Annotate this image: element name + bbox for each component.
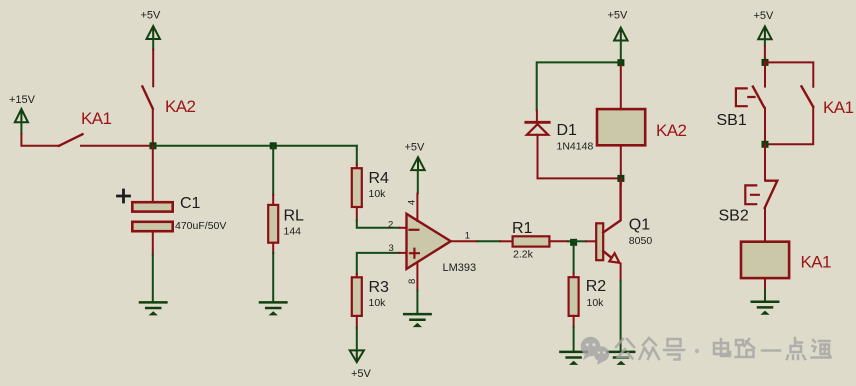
contact KA1 blade xyxy=(802,86,814,106)
svg-text:144: 144 xyxy=(284,226,302,238)
resistor R4 body xyxy=(352,168,362,207)
watermark text 公众号·电路一点通 (drawn) xyxy=(616,338,831,360)
button SB1 blade xyxy=(753,87,764,107)
relay coil KA1 pin bottom xyxy=(764,278,766,290)
wire KA1 coil to ground xyxy=(764,290,766,301)
op-amp pin 4 stub xyxy=(416,194,418,222)
diode D1 pin top xyxy=(536,110,538,121)
svg-text:RL: RL xyxy=(284,208,305,225)
button SB2 plunger xyxy=(745,185,759,204)
capacitor C1 plate 1 xyxy=(132,202,172,211)
node junction right top xyxy=(762,59,769,66)
svg-text:8: 8 xyxy=(407,279,418,284)
svg-text:KA1: KA1 xyxy=(801,252,831,271)
transistor Q1 emitter arrow xyxy=(609,253,619,263)
switch KA1 blade xyxy=(59,134,83,146)
op-amp pin 8 stub xyxy=(416,263,418,291)
capacitor C1 plus sign xyxy=(118,190,130,202)
wire SB2 to KA1 coil xyxy=(764,208,766,242)
svg-text:SB1: SB1 xyxy=(717,112,747,129)
wire +5V stub (right) xyxy=(764,39,766,46)
svg-text:R4: R4 xyxy=(369,170,390,187)
button SB1 plunger xyxy=(736,88,755,106)
svg-text:+5V: +5V xyxy=(754,10,775,22)
transistor Q1 emitter xyxy=(603,251,611,258)
relay coil KA2 body xyxy=(597,109,645,145)
wire junction to R2 xyxy=(573,245,575,274)
svg-text:10k: 10k xyxy=(369,297,387,309)
resistor R2 body xyxy=(569,277,579,316)
wire junction to Q1 base xyxy=(574,240,586,242)
svg-text:10k: 10k xyxy=(369,188,387,200)
ground op-amp xyxy=(404,314,430,326)
wire junction to SB2 xyxy=(764,144,766,179)
diode D1 pin bottom + wire to junction xyxy=(538,135,619,179)
wire +15V stub xyxy=(20,122,22,134)
wire +5V to op-amp pin4 xyxy=(417,170,419,193)
svg-text:2: 2 xyxy=(388,220,393,231)
op-amp plus symbol xyxy=(410,249,419,258)
wire KA1 to junction xyxy=(81,145,153,147)
power +15V arrow xyxy=(15,109,28,122)
wire +15V down red xyxy=(21,134,59,146)
svg-text:R2: R2 xyxy=(586,278,607,295)
wire pin1 to R1 xyxy=(477,240,500,242)
svg-text:1N4148: 1N4148 xyxy=(557,141,594,153)
button SB2 blade (NC) xyxy=(765,181,778,208)
svg-text:8050: 8050 xyxy=(629,235,653,247)
svg-text:LM393: LM393 xyxy=(443,262,477,274)
wire KA1 contact bottom xyxy=(765,107,813,145)
wire C1 to ground xyxy=(152,255,154,302)
wire relay pin bottom xyxy=(620,145,622,178)
resistor R1 pin left xyxy=(500,240,512,242)
power +5V arrow (right) xyxy=(758,26,771,39)
ground KA1 coil xyxy=(752,302,778,314)
svg-text:KA1: KA1 xyxy=(823,98,853,117)
op-amp U1 body xyxy=(407,214,451,269)
resistor R2 pin top xyxy=(573,273,575,277)
resistor R3 pin bottom xyxy=(356,316,358,328)
op-amp pin 3 stub xyxy=(399,252,405,254)
node junction relay top xyxy=(617,59,624,66)
resistor R3 body xyxy=(352,277,362,316)
node junction relay bottom xyxy=(617,175,624,182)
svg-text:+5V: +5V xyxy=(141,10,162,22)
wire RL to ground xyxy=(272,253,274,301)
svg-text:+5V: +5V xyxy=(351,368,372,380)
transistor Q1 base stub xyxy=(586,240,596,242)
wire R3 to op-amp pin3 xyxy=(357,253,400,274)
resistor R2 pin bottom xyxy=(573,316,575,327)
svg-text:3: 3 xyxy=(389,243,394,254)
resistor R4 pin bottom xyxy=(356,207,358,221)
power +5V arrow (op-amp) xyxy=(411,157,424,170)
ground C1 xyxy=(140,302,166,314)
wire junction to Q1 collector xyxy=(620,178,622,185)
resistor RL pin top xyxy=(272,195,274,205)
button SB1 pin bottom xyxy=(764,108,766,145)
wire emitter to ground xyxy=(620,281,622,351)
relay coil KA1 body xyxy=(741,242,789,278)
wire pin8 to ground xyxy=(416,290,418,313)
wire R1 to junction xyxy=(568,240,574,242)
svg-text:KA2: KA2 xyxy=(656,121,686,140)
wire KA2 pin bottom xyxy=(152,109,154,146)
wire R2 to ground xyxy=(573,327,575,351)
svg-text:2.2k: 2.2k xyxy=(513,249,534,261)
wire +5V to junction xyxy=(620,41,622,61)
svg-text:Q1: Q1 xyxy=(629,216,650,233)
svg-text:1: 1 xyxy=(465,230,470,241)
resistor RL body xyxy=(268,205,278,243)
node junction RL xyxy=(270,142,277,149)
svg-text:+5V: +5V xyxy=(405,142,426,154)
transistor Q1 base bar xyxy=(596,223,603,260)
capacitor C1 pin bottom xyxy=(152,232,154,255)
button SB1 pin top xyxy=(764,62,766,86)
switch KA2 blade xyxy=(142,87,152,109)
wire KA2 pin top xyxy=(152,50,154,87)
resistor RL pin bottom xyxy=(272,243,274,253)
ground Q1 xyxy=(608,352,634,364)
capacitor C1 plate 2 xyxy=(132,222,172,231)
svg-text:4: 4 xyxy=(407,200,418,205)
watermark logo and text xyxy=(581,337,609,365)
wire relay pin top xyxy=(620,66,622,109)
ground RL xyxy=(260,302,286,314)
resistor RL wire top xyxy=(272,146,274,195)
node junction main-left xyxy=(150,142,157,149)
op-amp pin 2 stub xyxy=(399,227,405,229)
power +5V down arrow (R3) xyxy=(350,350,364,362)
wire junction to D1 top xyxy=(537,62,621,110)
svg-text:KA2: KA2 xyxy=(165,97,195,116)
svg-text:C1: C1 xyxy=(180,195,201,212)
svg-text:R3: R3 xyxy=(369,279,390,296)
resistor R1 pin right xyxy=(549,240,567,242)
wire R3 to +5V down arrow xyxy=(356,328,358,351)
svg-text:R1: R1 xyxy=(512,220,533,237)
wire main horizontal xyxy=(153,145,357,147)
diode D1 cathode bar xyxy=(526,121,549,124)
svg-text:KA1: KA1 xyxy=(81,109,111,128)
wire Q1 emitter down xyxy=(620,264,622,282)
ground R2 xyxy=(560,352,586,364)
svg-text:D1: D1 xyxy=(557,122,578,139)
transistor Q1 collector xyxy=(603,179,620,233)
wire +5V stub green xyxy=(152,39,154,50)
power +5V arrow (KA2 branch) xyxy=(147,26,160,39)
resistor R1 body xyxy=(513,236,550,246)
capacitor C1 pin top xyxy=(152,146,154,203)
node junction right bottom xyxy=(762,141,769,148)
resistor R3 pin top xyxy=(356,274,358,277)
op-amp pin 1 stub xyxy=(452,240,477,242)
wire to junction (right top) xyxy=(764,46,766,60)
power +5V arrow (relay) xyxy=(614,28,627,41)
wire junction to KA1 contact xyxy=(765,62,813,86)
op-amp minus symbol xyxy=(410,229,419,231)
svg-text:+15V: +15V xyxy=(9,94,36,106)
svg-text:10k: 10k xyxy=(587,297,605,309)
diode D1 triangle xyxy=(527,124,548,135)
svg-text:+5V: +5V xyxy=(608,9,629,21)
wire main to R4 xyxy=(356,146,358,165)
svg-text:SB2: SB2 xyxy=(719,207,749,224)
resistor R4 pin top xyxy=(356,165,358,169)
wire R4 to op-amp pin2 xyxy=(357,221,400,228)
svg-text:470uF/50V: 470uF/50V xyxy=(175,220,226,232)
node junction base xyxy=(570,239,577,246)
